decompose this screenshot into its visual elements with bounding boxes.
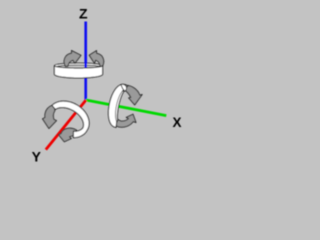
rotation ribbon around X axis: rim line (115, 90, 123, 121)
rotation ribbon around Y axis: band (52, 101, 89, 137)
rotation ribbon around Z axis: front band (54, 66, 102, 78)
rotation arrow at end of Y ribbon (58, 128, 77, 142)
svg-text:Y: Y (32, 149, 42, 165)
axis Y (red line) (46, 100, 86, 150)
rotation arrow above X axis (125, 85, 142, 105)
rotation arrow left of Y axis (43, 105, 57, 129)
rotation ribbon around X axis: end curl (121, 84, 127, 91)
rotation ribbon around Z axis: back rim (54, 63, 102, 68)
rotation arrow below X axis (116, 114, 136, 127)
rotation arrow left of Z axis (64, 51, 81, 67)
axis X (green line) (86, 100, 166, 116)
svg-text:Z: Z (79, 5, 88, 21)
rotation ribbon around Z axis: rim hole (56, 65, 100, 69)
axis Z (blue line) (84, 22, 87, 101)
rotation arrow right of Z axis (89, 51, 103, 67)
svg-text:X: X (173, 115, 182, 130)
rotation ribbon around X axis: band (108, 84, 127, 127)
